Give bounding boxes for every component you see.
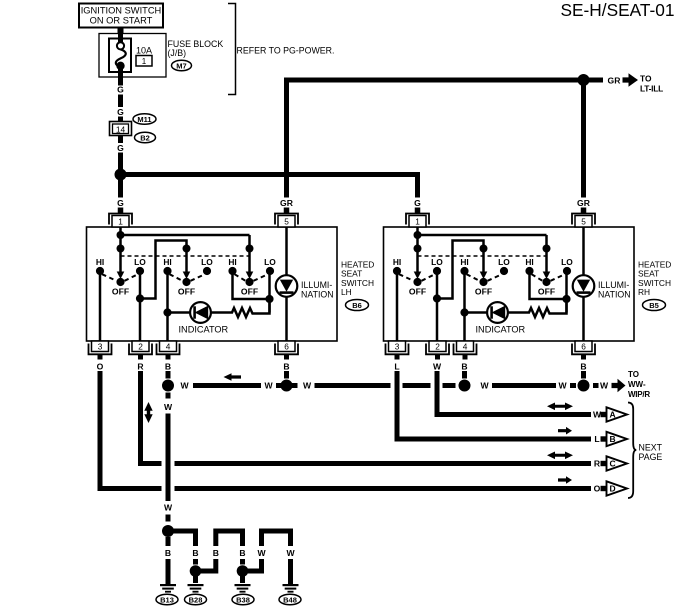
wire B ground B13 segment [166, 559, 171, 584]
svg-text:M11: M11 [137, 115, 151, 124]
wire GR stub LH pin 5 [284, 208, 290, 214]
label HEATED SEAT SWITCH LH [341, 259, 374, 297]
svg-text:G: G [117, 85, 124, 95]
connector M11 [133, 114, 156, 124]
svg-text:3: 3 [395, 342, 400, 352]
wire top bus LH [121, 234, 250, 237]
wire bridge 1 top [168, 529, 196, 534]
svg-text:LO: LO [134, 257, 146, 267]
svg-text:W: W [433, 362, 442, 372]
svg-text:TO: TO [640, 74, 652, 84]
svg-text:O: O [97, 362, 104, 372]
svg-text:WW-: WW- [628, 380, 646, 389]
svg-text:W: W [257, 548, 266, 558]
svg-text:TO: TO [628, 370, 639, 379]
svg-text:INDICATOR: INDICATOR [476, 325, 526, 335]
wire top bus RH [418, 234, 547, 237]
svg-text:B28: B28 [189, 595, 203, 604]
arrow left above W bus [224, 373, 242, 381]
svg-text:GR: GR [608, 76, 622, 86]
wire W horizontal [435, 412, 592, 417]
svg-text:HI: HI [96, 257, 104, 267]
svg-text:B: B [165, 548, 171, 558]
vertical double arrow [144, 402, 152, 423]
pin 2 RH [426, 341, 449, 360]
wire L horizontal [395, 437, 592, 442]
wire W bus i [593, 383, 599, 388]
bracket [228, 4, 236, 95]
svg-text:14: 14 [116, 124, 126, 134]
svg-text:GR: GR [577, 198, 591, 208]
wire W bus d [315, 383, 391, 388]
svg-text:2: 2 [435, 342, 440, 352]
wire B segment [284, 371, 289, 379]
svg-text:C: C [610, 459, 616, 469]
node LO1 branch LH [136, 294, 144, 302]
svg-text:4: 4 [166, 342, 171, 352]
indicator LED RH [465, 302, 526, 334]
svg-text:HI: HI [228, 257, 236, 267]
wire G segment 5 [118, 153, 123, 170]
svg-text:R: R [137, 362, 144, 372]
wire GR horizontal [284, 78, 603, 83]
svg-text:W: W [558, 381, 567, 391]
svg-text:OFF: OFF [178, 287, 195, 297]
svg-text:W: W [164, 402, 173, 412]
wire GR stub RH pin 5 [581, 208, 587, 214]
svg-text:W: W [303, 381, 312, 391]
illumination LED RH [573, 227, 631, 341]
fuse 10A #1 [109, 34, 152, 77]
svg-text:B5: B5 [649, 301, 659, 310]
connector B28 [185, 594, 207, 604]
resistor LH [211, 303, 270, 317]
pin 3 RH [386, 341, 409, 360]
svg-text:OFF: OFF [538, 287, 555, 297]
arrow right above L wire [558, 427, 572, 435]
wire G down to RH pin 1 [415, 172, 420, 198]
wire bridge 3 leg b [259, 529, 264, 547]
wire W dash [166, 393, 171, 399]
node indicator branch RH [460, 308, 468, 316]
wire LO1 to sw2 feed RH [437, 241, 484, 299]
wire GR down to LH pin 5 [284, 78, 289, 198]
wire G stub RH pin 1 [415, 208, 421, 214]
wire G segment 3 [118, 117, 123, 122]
wire R horizontal b [175, 461, 592, 466]
wire LO3 down LH [268, 271, 271, 313]
svg-text:NATION: NATION [598, 289, 631, 299]
wire G segment 2 [118, 95, 123, 108]
svg-text:G: G [117, 107, 124, 117]
wire W bus e [403, 383, 431, 388]
wire HI1 to pin3 RH [396, 271, 399, 341]
wire W down [435, 371, 440, 417]
svg-text:O: O [594, 484, 601, 494]
wire LO1 to pin2 LH [139, 271, 142, 341]
wire W ground B48 segment [288, 559, 293, 584]
arrow to LT-ILL [623, 73, 639, 87]
node bus junction LH [117, 231, 125, 239]
wire bridge 2 leg c [240, 529, 245, 547]
wire W down long [166, 414, 171, 502]
wire GR down to RH pin 5 [581, 80, 586, 198]
wire G stub LH pin 1 [118, 208, 124, 214]
svg-text:W: W [180, 381, 189, 391]
switch section 2 LH [163, 245, 213, 297]
junction GR split [578, 74, 590, 86]
wire ignition to fuse block [118, 28, 124, 35]
svg-text:SE-H/SEAT-01: SE-H/SEAT-01 [561, 0, 675, 20]
svg-text:B: B [239, 548, 245, 558]
wire W bus c [292, 383, 298, 388]
svg-text:5: 5 [581, 217, 586, 227]
svg-text:W: W [264, 381, 273, 391]
page connector D [601, 481, 628, 495]
svg-text:B6: B6 [352, 301, 362, 310]
svg-text:OFF: OFF [475, 287, 492, 297]
wire LO3 down RH [565, 271, 568, 313]
page connector B [601, 432, 628, 446]
wire W bus b [276, 383, 281, 388]
svg-text:G: G [117, 198, 124, 208]
svg-text:LO: LO [561, 257, 573, 267]
pin 6 RH [572, 341, 595, 360]
wire B segment [193, 559, 198, 565]
wire bridge 3 leg c [288, 529, 293, 547]
wire G branch horizontal [121, 172, 418, 177]
svg-text:(J/B): (J/B) [168, 48, 187, 58]
svg-text:INDICATOR: INDICATOR [179, 325, 229, 335]
pin 4 RH [454, 341, 477, 360]
wire bridge 3 leg a [259, 559, 264, 574]
svg-text:B: B [283, 362, 289, 372]
svg-text:B: B [461, 362, 467, 372]
heated seat switch LH box [87, 227, 338, 341]
wire HI3 loop RH [530, 271, 567, 299]
wire stub ground B28 [193, 575, 198, 583]
connector B6 [346, 300, 369, 311]
brace NEXT PAGE [628, 403, 636, 499]
svg-text:6: 6 [284, 342, 289, 352]
wire B segment [462, 371, 467, 379]
arrow to WW-WIP/R [612, 379, 626, 393]
wire R horizontal a [138, 461, 162, 466]
wire R down [138, 371, 143, 466]
wire LO1 to sw2 feed LH [140, 241, 187, 299]
svg-text:1: 1 [142, 57, 147, 66]
junction ground cluster [162, 525, 174, 537]
wire HI2 to pin4 RH [463, 271, 466, 341]
dashed gang line LH [121, 255, 250, 257]
svg-text:A: A [610, 410, 616, 420]
svg-text:W: W [480, 381, 489, 391]
wire G to LH pin 1 [118, 180, 123, 198]
wire O horizontal a [98, 486, 162, 491]
junction ground B38 [237, 565, 249, 577]
svg-text:B38: B38 [236, 595, 250, 604]
svg-text:5: 5 [284, 217, 289, 227]
switch section 3 RH [525, 245, 573, 297]
ignition switch box [79, 4, 163, 28]
wire LO1 to pin2 RH [436, 271, 439, 341]
connector B13 [156, 594, 178, 604]
double arrow above R wire [547, 452, 573, 460]
page connector A [601, 407, 628, 421]
svg-text:REFER TO PG-POWER.: REFER TO PG-POWER. [237, 46, 335, 56]
svg-text:W: W [600, 381, 609, 391]
pin 6 LH [275, 341, 298, 360]
wire pin1 feed RH [416, 227, 419, 249]
svg-text:2: 2 [138, 342, 143, 352]
node LO1 branch RH [433, 294, 441, 302]
svg-text:RH: RH [638, 287, 650, 297]
svg-text:B: B [213, 548, 219, 558]
wire B segment [166, 371, 171, 379]
pin 5 LH [275, 214, 298, 228]
svg-text:W: W [164, 503, 173, 513]
ground B38 [235, 584, 251, 593]
svg-text:D: D [610, 484, 616, 494]
svg-text:GR: GR [280, 198, 294, 208]
wire W bus h [570, 383, 576, 388]
svg-text:3: 3 [98, 342, 103, 352]
wire HI3 loop LH [233, 271, 270, 299]
resistor RH [508, 303, 567, 317]
wire bridge 1 leg [193, 529, 198, 547]
wire W bus a [193, 383, 261, 388]
svg-text:B: B [192, 548, 198, 558]
svg-text:L: L [594, 434, 599, 444]
svg-text:G: G [117, 143, 124, 153]
junction ground B28 [190, 565, 202, 577]
svg-text:M7: M7 [176, 61, 186, 70]
switch section 3 LH [228, 245, 276, 297]
wire bus drop sw3 RH [545, 235, 548, 249]
svg-text:L: L [394, 362, 399, 372]
connector M7 [172, 60, 192, 70]
wire pin1 feed LH [119, 227, 122, 249]
svg-text:G: G [414, 198, 421, 208]
junction pin6 RH W bus [578, 380, 590, 392]
svg-text:LT-ILL: LT-ILL [640, 83, 663, 93]
svg-text:LO: LO [264, 257, 276, 267]
page connector C [601, 456, 628, 470]
pin 2 LH [129, 341, 152, 360]
junction pin4 RH W bus [459, 380, 471, 392]
ground B28 [188, 584, 204, 593]
dashed gang line RH [418, 255, 547, 257]
wire W bus f [443, 383, 456, 388]
wire bridge 2 leg a [213, 559, 218, 574]
svg-text:HI: HI [163, 257, 171, 267]
switch section 2 RH [460, 245, 510, 297]
wire B segment [581, 371, 586, 379]
svg-text:LO: LO [498, 257, 510, 267]
svg-text:6: 6 [581, 342, 586, 352]
wire bridge 3 bottom [243, 569, 262, 574]
illumination LED LH [276, 227, 334, 341]
wire bus drop sw3 LH [248, 235, 251, 249]
label HEATED SEAT SWITCH RH [638, 259, 671, 297]
double arrow above W wire [547, 403, 573, 411]
svg-text:WIP/R: WIP/R [628, 390, 650, 399]
connector B38 [232, 594, 254, 604]
wire bridge 2 bottom [196, 569, 216, 574]
svg-text:PAGE: PAGE [639, 452, 663, 462]
svg-text:W: W [286, 548, 295, 558]
wire G segment 4 [118, 136, 123, 144]
node bus junction RH [414, 231, 422, 239]
svg-text:OFF: OFF [409, 287, 426, 297]
junction pin4 LH W bus [162, 380, 174, 392]
svg-text:B2: B2 [140, 133, 150, 142]
inline connector 14 (M11/B2) [110, 122, 132, 136]
junction G split [115, 169, 127, 181]
connector B2 [135, 132, 156, 142]
connector B48 [279, 594, 301, 604]
node sw3 common RH [562, 295, 570, 303]
wire stub ground B38 [240, 575, 245, 583]
svg-text:B: B [165, 362, 171, 372]
node sw3 common LH [265, 295, 273, 303]
pin 1 LH [109, 214, 132, 228]
heated seat switch RH box [384, 227, 635, 341]
svg-text:R: R [594, 459, 601, 469]
wire bridge 2 leg b [213, 529, 218, 547]
ground B13 [160, 584, 176, 593]
wire B to ground B13 [166, 537, 171, 546]
pin 5 RH [572, 214, 595, 228]
switch section 1 LH [96, 245, 146, 297]
svg-text:OFF: OFF [112, 287, 129, 297]
switch section 1 RH [393, 245, 443, 297]
wire B segment [240, 559, 245, 565]
svg-text:NATION: NATION [301, 289, 334, 299]
fuse block J/B box [99, 34, 166, 78]
svg-text:OFF: OFF [241, 287, 258, 297]
wire O horizontal b [175, 486, 592, 491]
node indicator branch LH [163, 308, 171, 316]
svg-text:IGNITION SWITCH: IGNITION SWITCH [81, 6, 162, 16]
indicator LED LH [168, 302, 229, 334]
pin 4 LH [157, 341, 180, 360]
junction pin6 LH W bus [281, 380, 293, 392]
svg-text:HI: HI [393, 257, 401, 267]
svg-text:B13: B13 [160, 595, 174, 604]
svg-text:HI: HI [460, 257, 468, 267]
wire W bus g [492, 383, 556, 388]
pin 1 RH [406, 214, 429, 228]
connector B5 [643, 300, 666, 311]
svg-text:1: 1 [118, 217, 123, 227]
svg-text:HI: HI [525, 257, 533, 267]
svg-text:LH: LH [341, 287, 352, 297]
wire HI1 to pin3 LH [99, 271, 102, 341]
svg-text:LO: LO [201, 257, 213, 267]
pin 3 LH [89, 341, 112, 360]
svg-text:ON OR START: ON OR START [90, 16, 153, 26]
wire G segment 1 [118, 77, 123, 86]
wire L down [395, 371, 400, 442]
ground B48 [283, 584, 299, 593]
wire bridge 3 top [262, 529, 291, 534]
arrow right above O wire [558, 476, 572, 484]
svg-text:LO: LO [431, 257, 443, 267]
wire HI2 to pin4 LH [166, 271, 169, 341]
wire W segment [166, 515, 171, 522]
svg-text:B: B [580, 362, 586, 372]
svg-text:B48: B48 [283, 595, 297, 604]
svg-text:1: 1 [415, 217, 420, 227]
svg-text:NEXT: NEXT [639, 442, 663, 452]
svg-text:4: 4 [463, 342, 468, 352]
svg-text:10A: 10A [136, 46, 152, 56]
svg-text:B: B [610, 434, 616, 444]
wire O down [98, 371, 103, 491]
wire bridge 2 top [216, 529, 243, 534]
